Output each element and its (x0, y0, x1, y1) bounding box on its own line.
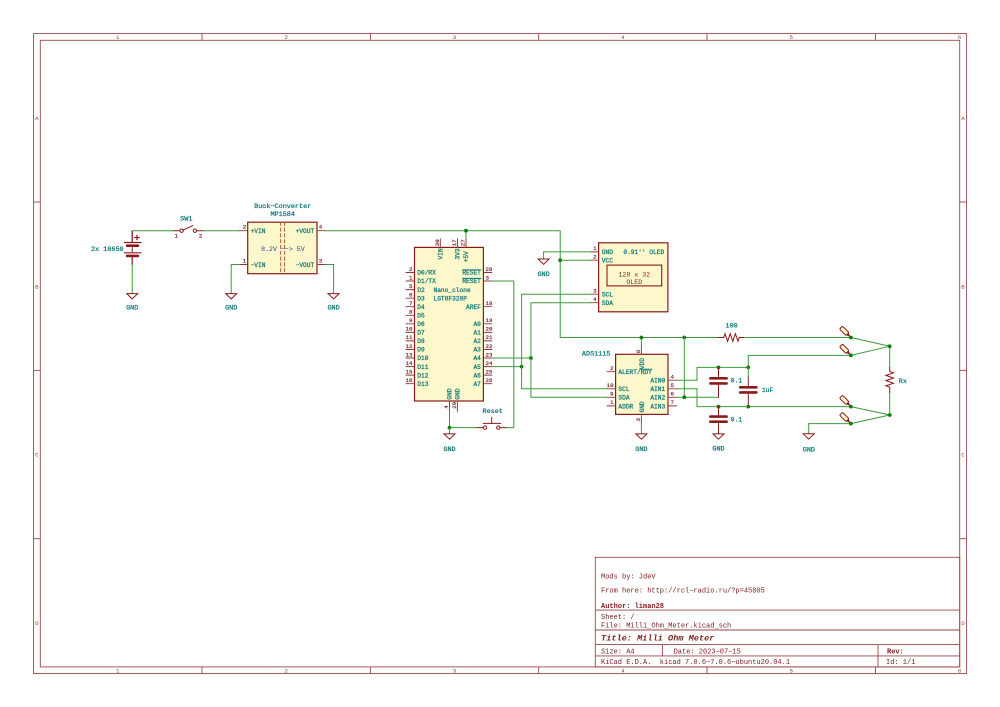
svg-text:22: 22 (486, 343, 493, 350)
nano bottom pin names GND GND (447, 388, 462, 399)
nano bottom pin numbers 4 29 (443, 401, 458, 408)
ads pin stubs (607, 346, 676, 423)
svg-text:+VOUT: +VOUT (296, 228, 315, 235)
junction AIN2 vertical (682, 395, 686, 399)
svg-text:23: 23 (486, 351, 493, 358)
svg-text:AIN3: AIN3 (650, 403, 665, 410)
svg-text:GND: GND (712, 446, 724, 454)
wire clip4 diagonal to Rx bottom (851, 415, 890, 424)
svg-text:File: Milli_Ohm_Meter.kicad_sc: File: Milli_Ohm_Meter.kicad_sch (601, 622, 731, 630)
svg-text:−VOUT: −VOUT (296, 262, 315, 269)
wire buck -VIN to ground (231, 265, 239, 294)
svg-text:18: 18 (486, 300, 493, 307)
svg-text:6: 6 (409, 292, 413, 299)
wire battery bottom to ground (131, 264, 133, 293)
svg-text:D11: D11 (417, 364, 428, 371)
resistor Rx (886, 368, 907, 393)
svg-text:D6: D6 (417, 321, 425, 328)
svg-text:4: 4 (671, 374, 675, 381)
clip J3 sense- (840, 395, 852, 407)
svg-text:Sheet: /: Sheet: / (601, 614, 635, 622)
svg-text:A0: A0 (473, 321, 481, 328)
wire clip3 diagonal to Rx bottom (851, 407, 890, 415)
svg-text:3: 3 (486, 274, 490, 281)
junction net B 1uF (746, 405, 750, 409)
reset button SW2 (477, 408, 507, 429)
wire buck -VOUT to ground (326, 265, 334, 294)
battery BT1 2x 18650 (91, 231, 141, 264)
nano left pin numbers (406, 266, 413, 384)
wire A5 to SCL vertical (492, 366, 522, 368)
svg-text:D2: D2 (417, 287, 425, 294)
svg-text:D0/RX: D0/RX (417, 270, 436, 277)
junction sense node cap 0.1 (717, 366, 721, 370)
wire junction to reset button (450, 427, 477, 429)
svg-text:D: D (35, 620, 39, 627)
svg-text:Nano_clone: Nano_clone (434, 287, 471, 294)
svg-text:10: 10 (607, 382, 614, 389)
ADC U2 ADS1115 (582, 346, 677, 423)
ground buck -VOUT (327, 294, 339, 313)
clip J4 force- (840, 412, 852, 424)
svg-text:SW1: SW1 (180, 216, 192, 224)
svg-text:A: A (35, 115, 39, 122)
ground cap C3 (712, 434, 724, 454)
wire nano GND pin to junction (449, 412, 451, 428)
svg-text:24: 24 (486, 360, 493, 367)
svg-text:0.1: 0.1 (731, 416, 743, 423)
svg-text:A4: A4 (473, 355, 481, 362)
ground ads (635, 434, 647, 454)
svg-text:GND: GND (447, 388, 454, 399)
junction clip4 (849, 422, 853, 426)
svg-text:7: 7 (671, 399, 675, 406)
svg-text:25: 25 (486, 368, 493, 375)
junction A5 SCL (520, 365, 524, 369)
wire 100 resistor to clip1 (745, 337, 851, 339)
svg-text:21: 21 (486, 334, 493, 341)
svg-text:6: 6 (958, 34, 962, 41)
resistor R1 100 (718, 322, 745, 341)
oled pin stubs (590, 252, 599, 303)
svg-text:MP1584: MP1584 (270, 211, 294, 219)
wire clip2 row to sense node (748, 355, 851, 367)
wire oled SCL to ADS SCL (522, 294, 608, 389)
junction clip2 (849, 354, 853, 358)
svg-text:GND: GND (537, 271, 549, 279)
svg-text:13: 13 (406, 351, 413, 358)
svg-text:+5V: +5V (463, 251, 470, 262)
clip J2 sense+ (840, 344, 852, 356)
nano right pin names (462, 270, 481, 388)
svg-text:0.1: 0.1 (731, 378, 743, 385)
wire AIN2 to cap (677, 396, 719, 398)
ground nano (443, 434, 455, 454)
svg-text:1uF: 1uF (762, 387, 774, 394)
nano left pin names (417, 270, 436, 388)
wire junction to ground (449, 428, 451, 434)
svg-text:5: 5 (789, 34, 793, 41)
svg-text:D: D (961, 620, 965, 627)
svg-text:8: 8 (409, 309, 413, 316)
svg-text:2x 18650: 2x 18650 (91, 246, 124, 254)
svg-text:3: 3 (453, 667, 457, 674)
nano top pin numbers 30 17 27 (434, 239, 467, 246)
capacitor C3 0.1 (710, 407, 742, 434)
svg-text:5: 5 (671, 382, 675, 389)
wire oled SDA to ADS SDA (531, 303, 607, 398)
svg-text:6: 6 (671, 391, 675, 398)
OLED display 0.91" 128x32 (590, 243, 668, 312)
wire clip1 diagonal to Rx top (851, 338, 890, 347)
svg-text:GND: GND (455, 388, 462, 399)
svg-text:ADS1115: ADS1115 (582, 350, 611, 358)
svg-text:3: 3 (453, 34, 457, 41)
svg-text:5: 5 (409, 283, 413, 290)
svg-text:B: B (35, 283, 39, 290)
buck converter MP1584 (239, 203, 325, 274)
svg-text:RESET: RESET (462, 278, 481, 285)
svg-text:28: 28 (486, 266, 493, 273)
svg-text:3: 3 (635, 418, 642, 422)
svg-text:1: 1 (243, 258, 247, 265)
svg-text:Size: A4: Size: A4 (601, 649, 635, 657)
svg-text:D1/TX: D1/TX (417, 278, 436, 285)
svg-text:10: 10 (406, 326, 413, 333)
svg-text:2: 2 (284, 667, 288, 674)
svg-text:D12: D12 (417, 372, 428, 379)
svg-text:1: 1 (116, 667, 120, 674)
svg-text:2: 2 (409, 266, 413, 273)
svg-text:OLED: OLED (626, 279, 642, 286)
MCU U1 Nano_clone LGT8F328P (406, 239, 493, 412)
svg-text:2: 2 (610, 365, 614, 372)
svg-text:+VIN: +VIN (251, 228, 266, 235)
svg-text:SCL: SCL (618, 386, 629, 393)
svg-text:Author: liman28: Author: liman28 (601, 603, 664, 611)
svg-text:30: 30 (434, 239, 441, 246)
capacitor C2 1uF (740, 377, 773, 407)
svg-text:D13: D13 (417, 381, 428, 388)
ads pin numbers (607, 365, 614, 406)
nano value fields Nano_clone LGT8F328P (434, 287, 471, 303)
oled screen rectangle (607, 265, 662, 286)
svg-text:8: 8 (635, 349, 642, 353)
wire Rx bottom lead (889, 393, 891, 416)
wire ads GND to ground (640, 423, 642, 434)
svg-text:AIN2: AIN2 (650, 395, 665, 402)
svg-text:4: 4 (319, 224, 323, 231)
svg-text:A6: A6 (473, 372, 481, 379)
svg-text:6: 6 (958, 667, 962, 674)
nano bottom pin stubs 4 and 29 (450, 401, 458, 412)
ground clip4 (803, 434, 815, 455)
svg-text:2: 2 (199, 233, 203, 240)
svg-text:SDA: SDA (618, 395, 629, 402)
svg-text:8.2V −−> 5V: 8.2V −−> 5V (261, 246, 305, 253)
svg-text:12: 12 (406, 343, 413, 350)
svg-text:From here: http://rcl−radio.ru: From here: http://rcl−radio.ru/?p=45805 (601, 587, 765, 595)
svg-text:100: 100 (725, 322, 737, 330)
svg-text:9: 9 (409, 317, 413, 324)
svg-text:GND: GND (126, 305, 138, 313)
wire AIN0 to sense node (677, 367, 749, 380)
junction sense node 1uF (746, 366, 750, 370)
svg-text:SDA: SDA (602, 300, 613, 307)
svg-text:Title: Milli Ohm Meter: Title: Milli Ohm Meter (601, 634, 714, 644)
svg-text:4: 4 (621, 667, 625, 674)
svg-text:0.91'' OLED: 0.91'' OLED (623, 249, 664, 256)
svg-text:D4: D4 (417, 304, 425, 311)
svg-text:C: C (35, 452, 39, 459)
svg-text:KiCad E.D.A. kicad 7.0.6−7.0.: KiCad E.D.A. kicad 7.0.6−7.0.6−ubuntu20.… (601, 659, 790, 667)
svg-text:Buck−Converter: Buck−Converter (254, 203, 311, 211)
junction clip1 (849, 336, 853, 340)
svg-text:3: 3 (319, 258, 323, 265)
svg-text:D9: D9 (417, 347, 425, 354)
wire clip4 row to ground (809, 424, 851, 434)
switch SW1 (173, 216, 203, 240)
svg-text:GND: GND (327, 305, 339, 313)
svg-text:D5: D5 (417, 313, 425, 320)
nano right pin numbers (486, 266, 493, 384)
svg-text:RESET: RESET (462, 270, 481, 277)
svg-text:2: 2 (243, 224, 247, 231)
svg-text:GND: GND (443, 446, 455, 454)
svg-text:20: 20 (486, 326, 493, 333)
svg-text:Id: 1/1: Id: 1/1 (886, 659, 915, 667)
svg-text:17: 17 (451, 239, 458, 246)
svg-text:ADDR: ADDR (618, 403, 633, 410)
svg-text:LGT8F328P: LGT8F328P (434, 295, 468, 302)
junction AIN2 rail tap (682, 336, 686, 340)
svg-text:7: 7 (409, 300, 413, 307)
svg-text:128 x 32: 128 x 32 (618, 271, 650, 278)
svg-text:GND: GND (602, 249, 613, 256)
svg-text:3V3: 3V3 (455, 248, 462, 259)
svg-text:14: 14 (406, 360, 413, 367)
clip J1 force+ (840, 326, 852, 338)
svg-text:1: 1 (409, 274, 413, 281)
svg-text:VIN: VIN (438, 248, 445, 259)
svg-text:VCC: VCC (602, 257, 613, 264)
svg-text:GND: GND (639, 401, 646, 412)
oled pin names (602, 249, 613, 307)
ads ALERT/RDY overline (641, 368, 652, 370)
svg-text:ALERT/RDY: ALERT/RDY (618, 369, 652, 376)
svg-text:16: 16 (406, 377, 413, 384)
svg-text:19: 19 (486, 317, 493, 324)
svg-text:D3: D3 (417, 295, 425, 302)
svg-text:5: 5 (789, 667, 793, 674)
svg-text:A3: A3 (473, 347, 481, 354)
junction A4 SDA (529, 356, 533, 360)
nano left pin stubs (406, 273, 415, 384)
wire clip2 diagonal to Rx top (851, 346, 890, 355)
svg-text:A: A (961, 115, 965, 122)
junction nano gnd (448, 426, 452, 430)
wire Rx top lead (889, 346, 891, 367)
svg-text:26: 26 (486, 377, 493, 384)
wire SW1 to buck +VIN (203, 230, 239, 232)
svg-text:D10: D10 (417, 355, 428, 362)
svg-text:1: 1 (610, 399, 614, 406)
svg-text:15: 15 (406, 368, 413, 375)
svg-text:4: 4 (593, 296, 597, 303)
junction net B cap 0.1 (717, 405, 721, 409)
ground buck -VIN (225, 294, 237, 313)
svg-text:1: 1 (116, 34, 120, 41)
wire A4 to SDA vertical (492, 357, 531, 359)
svg-text:A7: A7 (473, 381, 481, 388)
svg-text:Reset: Reset (482, 408, 502, 416)
wire 1uF top (747, 367, 749, 376)
junction clip3 (849, 405, 853, 409)
svg-text:D7: D7 (417, 330, 425, 337)
svg-text:Rx: Rx (899, 378, 907, 386)
svg-text:A1: A1 (473, 330, 481, 337)
svg-text:4: 4 (443, 405, 450, 409)
svg-text:2: 2 (593, 254, 597, 261)
wire rail down to AIN2 (683, 338, 685, 398)
nano top pin names VIN 3V3 +5V (438, 248, 471, 262)
svg-text:1: 1 (593, 245, 597, 252)
svg-text:11: 11 (406, 334, 413, 341)
nano RESET overlines (462, 270, 481, 279)
svg-text:1: 1 (175, 232, 179, 239)
wire ADS VDD tap (640, 338, 642, 347)
svg-text:2: 2 (284, 34, 288, 41)
svg-text:VDD: VDD (639, 358, 646, 369)
svg-text:AREF: AREF (466, 304, 481, 311)
wire AIN1 to net B (677, 389, 851, 407)
svg-text:B: B (961, 283, 965, 290)
svg-text:SCL: SCL (602, 291, 613, 298)
svg-text:4: 4 (621, 34, 625, 41)
svg-text:AIN1: AIN1 (650, 386, 665, 393)
svg-text:A2: A2 (473, 338, 481, 345)
svg-text:GND: GND (635, 446, 647, 454)
svg-text:GND: GND (803, 447, 815, 455)
wire reset button to RESET pin3 (492, 281, 514, 428)
wire oled GND to ground (544, 252, 591, 259)
svg-text:29: 29 (451, 401, 458, 408)
capacitor C1 0.1 (710, 367, 742, 397)
wire +5V tap to nano pin 27 (465, 231, 467, 239)
svg-text:AIN0: AIN0 (650, 377, 665, 384)
ads pin names (618, 369, 652, 410)
ground oled (537, 259, 549, 279)
junction VCC oled (558, 258, 562, 262)
svg-text:GND: GND (225, 305, 237, 313)
wire +5V rail to 100 resistor (560, 337, 718, 339)
wire battery top to SW1 (132, 231, 173, 243)
nano top pin stubs (440, 239, 466, 248)
svg-text:A5: A5 (473, 364, 481, 371)
svg-text:D8: D8 (417, 338, 425, 345)
svg-text:9: 9 (610, 391, 614, 398)
wire oled VCC to +5V vertical (560, 259, 590, 261)
svg-text:Rev:: Rev: (887, 649, 904, 657)
junction Rx bottom (888, 413, 892, 417)
svg-text:−VIN: −VIN (251, 262, 266, 269)
svg-text:27: 27 (460, 239, 467, 246)
wire +5V rail buck to corner (326, 231, 561, 338)
junction +5V nano (464, 229, 468, 233)
oled pin numbers (593, 245, 597, 303)
nano right pin stubs (483, 273, 492, 384)
junction Rx top (888, 344, 892, 348)
junction ADS VDD (640, 336, 644, 340)
svg-text:Mods by: JdeV: Mods by: JdeV (601, 573, 656, 581)
svg-text:3: 3 (593, 288, 597, 295)
svg-text:C: C (961, 452, 965, 459)
svg-text:Date: 2023−07−15: Date: 2023−07−15 (674, 649, 741, 657)
ground battery (126, 294, 138, 313)
